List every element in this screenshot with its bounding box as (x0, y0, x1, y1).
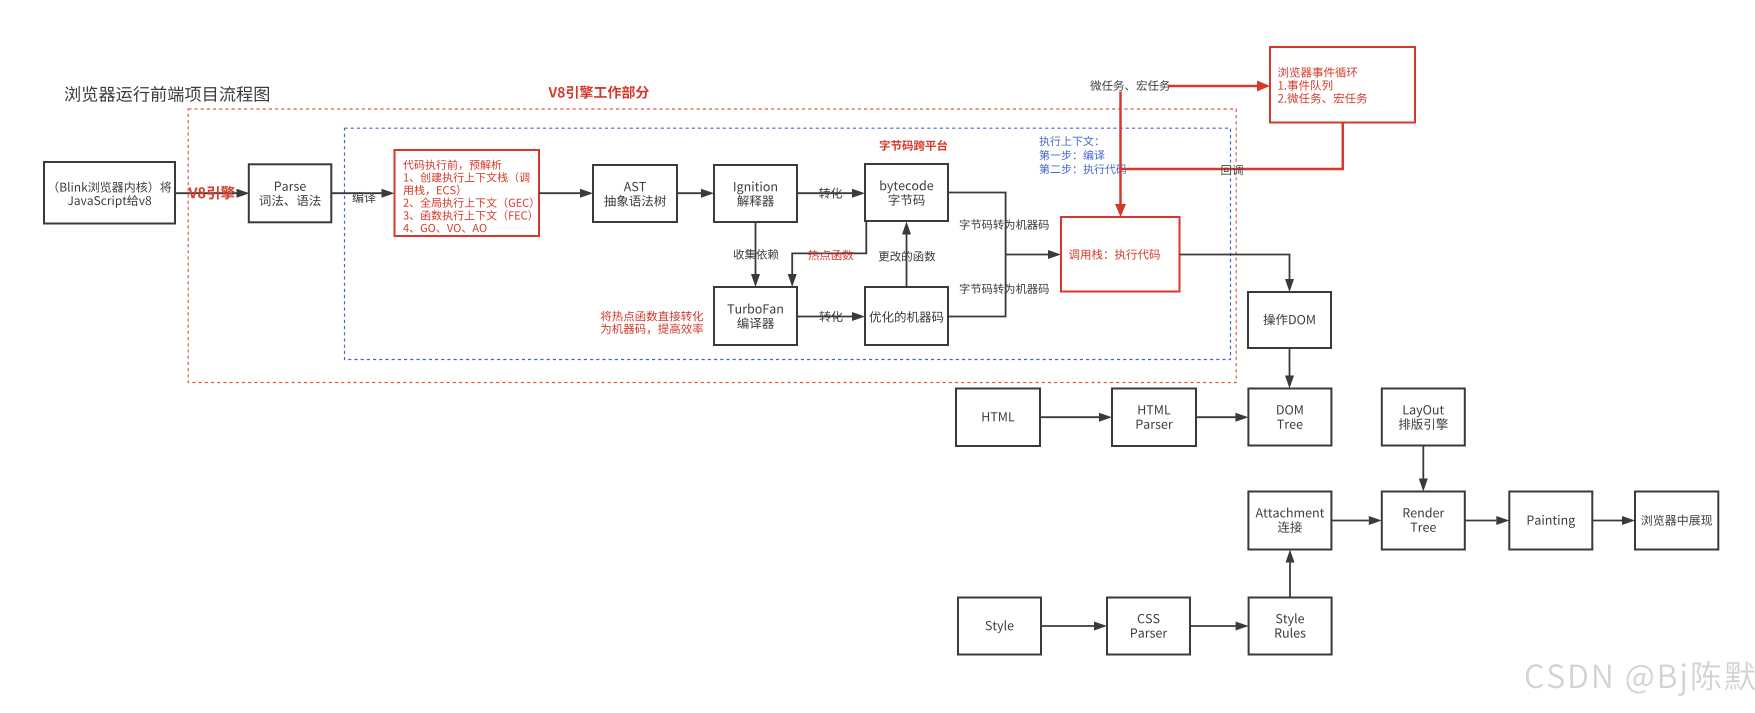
arrow Blink to Parse (175, 192, 237, 194)
label 编译 (352, 192, 375, 203)
red box 浏览器事件循环 (1270, 47, 1415, 123)
box AST (593, 165, 677, 222)
label 微任务宏任务 (1090, 80, 1170, 91)
backing plate for 回调 label (1216, 163, 1249, 178)
box DOM Tree (1248, 389, 1331, 446)
arrow HTML to HTML Parser (1040, 416, 1099, 418)
box bytecode (865, 164, 948, 221)
box 浏览器中展现 (1635, 492, 1718, 550)
label 字节码转为机器码 upper (960, 219, 1049, 229)
box Parse (249, 164, 331, 222)
wire hot function bytecode to TurboFan (792, 222, 866, 275)
arrow HTML Parser to DOM Tree (1196, 416, 1235, 418)
watermark CSDN (1526, 661, 1755, 696)
arrow Style Rules up to Attachment (1289, 563, 1291, 598)
label 转化 upper (819, 188, 842, 199)
box Blink kernel (44, 162, 175, 224)
wire bytecode to call stack junction (948, 193, 1006, 255)
box CSS Parser (1107, 598, 1190, 655)
arrow 操作DOM to DOM Tree (1289, 348, 1291, 376)
box LayOut (1382, 389, 1465, 446)
label 热点函数 (808, 250, 853, 261)
label 回调 (1221, 165, 1242, 175)
label 字节码转为机器码 lower (960, 283, 1049, 293)
red arrow down to call stack (1119, 92, 1122, 205)
box Painting (1509, 492, 1592, 550)
arrow 优化的机器码 up to bytecode 更改的函数 (906, 235, 908, 288)
red box 调用栈执行代码 (1061, 217, 1180, 292)
red box 代码执行前 preparse list (395, 150, 540, 236)
wire call stack to 操作DOM (1180, 255, 1290, 280)
arrow Render Tree to Painting (1465, 520, 1497, 522)
box Attachment (1248, 492, 1331, 550)
arrow Parse to preparse (331, 192, 381, 194)
label V8引擎工作部分 (548, 85, 649, 98)
label 收集依赖 (734, 249, 779, 260)
note 执行上下文 blue (1039, 136, 1097, 146)
red wire event loop callback 回调 (1121, 123, 1343, 170)
label 将热点函数直接转化为机器码 note (601, 311, 704, 322)
arrow AST to Ignition (677, 192, 701, 194)
box 操作DOM (1248, 292, 1331, 348)
arrow Ignition to bytecode (797, 192, 852, 194)
arrow CSS Parser to Style Rules (1190, 625, 1236, 627)
arrow LayOut to Render Tree (1422, 446, 1424, 479)
box Style Rules (1249, 598, 1332, 655)
box 优化的机器码 (865, 287, 948, 345)
box HTML (956, 389, 1040, 447)
label 转化 lower (819, 311, 842, 322)
red dashed container V8引擎工作部分 (188, 109, 1236, 383)
arrow preparse to AST (539, 192, 580, 194)
arrow Painting to browser display (1592, 520, 1622, 522)
box Style (958, 598, 1041, 655)
blue dashed container bytecode platform (345, 128, 1231, 359)
label V8引擎 (188, 186, 234, 200)
box Render Tree (1382, 492, 1465, 550)
box Ignition (714, 165, 797, 222)
title 浏览器运行前端项目流程图 (65, 86, 269, 102)
wire optimized code to call stack junction (948, 255, 1006, 317)
arrow Ignition down to TurboFan 收集依赖 (755, 222, 757, 274)
arrow junction to call stack (1006, 254, 1048, 256)
box HTML Parser (1112, 389, 1196, 447)
label 字节码跨平台 (880, 140, 948, 151)
label 更改的函数 (879, 251, 936, 262)
arrow TurboFan to optimized code (797, 316, 852, 318)
box TurboFan (714, 287, 797, 345)
arrow Attachment to Render Tree (1331, 520, 1368, 522)
arrow Style to CSS Parser (1041, 625, 1094, 627)
red arrow to event loop box (1168, 85, 1257, 88)
